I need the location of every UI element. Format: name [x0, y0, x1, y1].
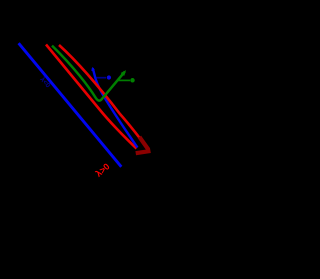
- blue arrowhead: [92, 68, 94, 71]
- wire: green curved trajectory: [52, 46, 125, 101]
- blue node dot: [107, 75, 111, 79]
- green node dot: [130, 78, 135, 83]
- blue leader wire: [97, 77, 107, 79]
- green leader wire: [117, 79, 130, 81]
- wire: bright red line R1: [46, 45, 137, 149]
- wire: long blue line (lambda<0 branch): [19, 43, 122, 167]
- wire: dark red (maroon) line R2: [59, 45, 144, 144]
- maroon arrowhead: [138, 139, 149, 153]
- green arrowhead: [121, 72, 125, 76]
- wire: thin blue curved trajectory: [93, 68, 138, 147]
